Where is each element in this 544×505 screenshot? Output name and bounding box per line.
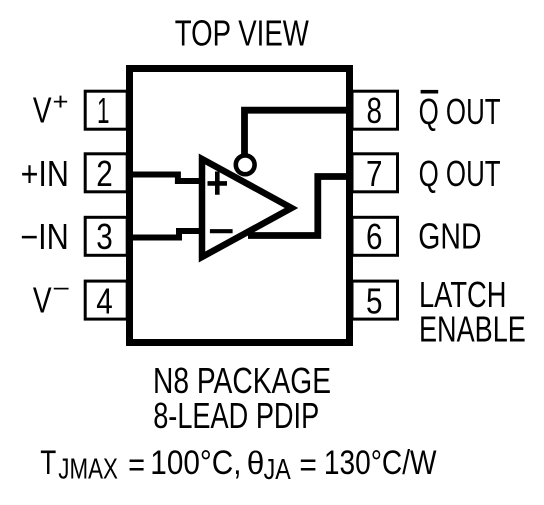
- plus input symbol: [208, 172, 228, 195]
- svg-text:100°C,: 100°C,: [150, 444, 241, 482]
- wire Q output from comparator to pin 7: [248, 177, 350, 236]
- svg-text:+IN: +IN: [21, 153, 69, 194]
- pin 1 box: [85, 90, 127, 131]
- pin 5 label LATCH ENABLE: [419, 274, 526, 350]
- pin 5 box: [352, 280, 398, 321]
- svg-text:T: T: [40, 444, 56, 482]
- svg-text:ENABLE: ENABLE: [419, 309, 526, 350]
- svg-text:−: −: [52, 275, 70, 302]
- pin 6 box: [352, 216, 398, 257]
- wire +IN from pin 2 to comparator: [129, 175, 204, 182]
- svg-text:1: 1: [97, 90, 110, 131]
- svg-text:θ: θ: [247, 445, 265, 481]
- svg-text:8-LEAD PDIP: 8-LEAD PDIP: [153, 395, 319, 436]
- thermal note TJMAX = 100C, thetaJA = 130C/W: [40, 444, 436, 486]
- pin 7 box: [352, 153, 398, 194]
- wire Qbar output from bubble to pin 8: [245, 110, 351, 158]
- svg-text:=: =: [299, 447, 317, 485]
- svg-text:TOP VIEW: TOP VIEW: [175, 13, 309, 54]
- pin 4 label V-: [33, 275, 70, 320]
- pin 4 box: [85, 280, 127, 321]
- svg-text:JMAX: JMAX: [58, 454, 118, 486]
- pin 3 box: [85, 216, 127, 257]
- svg-text:Q OUT: Q OUT: [419, 153, 501, 194]
- svg-text:130°C/W: 130°C/W: [324, 444, 437, 482]
- svg-text:Q OUT: Q OUT: [419, 91, 501, 132]
- svg-text:GND: GND: [418, 216, 481, 257]
- minus input symbol: [210, 229, 233, 233]
- pin 1 label V+: [33, 89, 69, 131]
- svg-text:V: V: [33, 89, 52, 130]
- svg-text:4: 4: [96, 280, 113, 321]
- svg-text:=: =: [128, 447, 145, 485]
- svg-text:5: 5: [366, 280, 383, 321]
- pin 8 label Qbar OUT: [419, 90, 501, 132]
- svg-text:V: V: [33, 279, 52, 320]
- svg-text:2: 2: [96, 153, 113, 194]
- svg-text:−IN: −IN: [20, 216, 69, 257]
- IC body N8 package outline: [130, 69, 350, 343]
- wire -IN from pin 3 to comparator: [129, 231, 204, 238]
- svg-text:8: 8: [367, 90, 383, 131]
- svg-text:7: 7: [366, 153, 383, 194]
- pin 8 box: [352, 90, 398, 131]
- svg-text:6: 6: [366, 216, 383, 257]
- inversion bubble: [236, 155, 255, 174]
- svg-text:3: 3: [96, 216, 113, 257]
- svg-text:JA: JA: [264, 454, 292, 486]
- comparator U1 triangle: [202, 159, 292, 257]
- svg-text:+: +: [53, 89, 69, 116]
- pin 2 box: [85, 153, 127, 194]
